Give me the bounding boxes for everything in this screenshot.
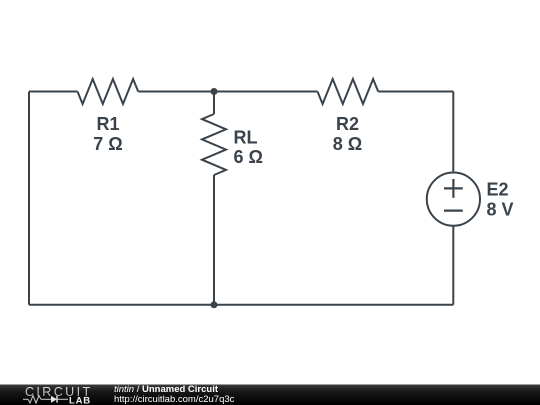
svg-text:LAB: LAB [69, 396, 91, 405]
wire top-left segment [29, 91, 78, 93]
svg-text:8 Ω: 8 Ω [333, 134, 362, 154]
logo resistor zigzag [28, 396, 41, 403]
wire top-right segment [378, 91, 453, 93]
wire right vertical lower [452, 226, 454, 305]
logo schematic wire [23, 398, 28, 400]
label R2 value [333, 114, 362, 154]
label R1 value [93, 114, 122, 154]
svg-text:R2: R2 [336, 114, 359, 134]
wire right vertical upper [452, 92, 454, 173]
resistor RL [202, 114, 226, 175]
label RL value [234, 128, 263, 168]
node junction top [211, 88, 218, 95]
svg-text:E2: E2 [487, 179, 509, 199]
label E2 value [487, 179, 514, 219]
logo wire to diode [41, 398, 51, 400]
svg-text:RL: RL [234, 128, 258, 148]
svg-text:6 Ω: 6 Ω [234, 147, 263, 167]
svg-text:http://circuitlab.com/c2u7q3c: http://circuitlab.com/c2u7q3c [114, 394, 235, 405]
svg-text:R1: R1 [96, 114, 119, 134]
node junction bottom [211, 301, 218, 308]
voltage source E2 [427, 173, 480, 226]
logo wire after diode [57, 398, 68, 400]
wire bottom horizontal [29, 304, 453, 306]
footer bar [0, 385, 540, 405]
resistor R2 [318, 79, 379, 104]
svg-text:7 Ω: 7 Ω [93, 134, 122, 154]
wire middle branch lower [213, 175, 215, 305]
svg-text:8 V: 8 V [487, 200, 514, 220]
wire middle branch upper [213, 92, 215, 115]
logo diode [51, 396, 57, 403]
wire top-middle segment [138, 91, 317, 93]
resistor R1 [78, 79, 139, 104]
wire left vertical [28, 92, 30, 305]
